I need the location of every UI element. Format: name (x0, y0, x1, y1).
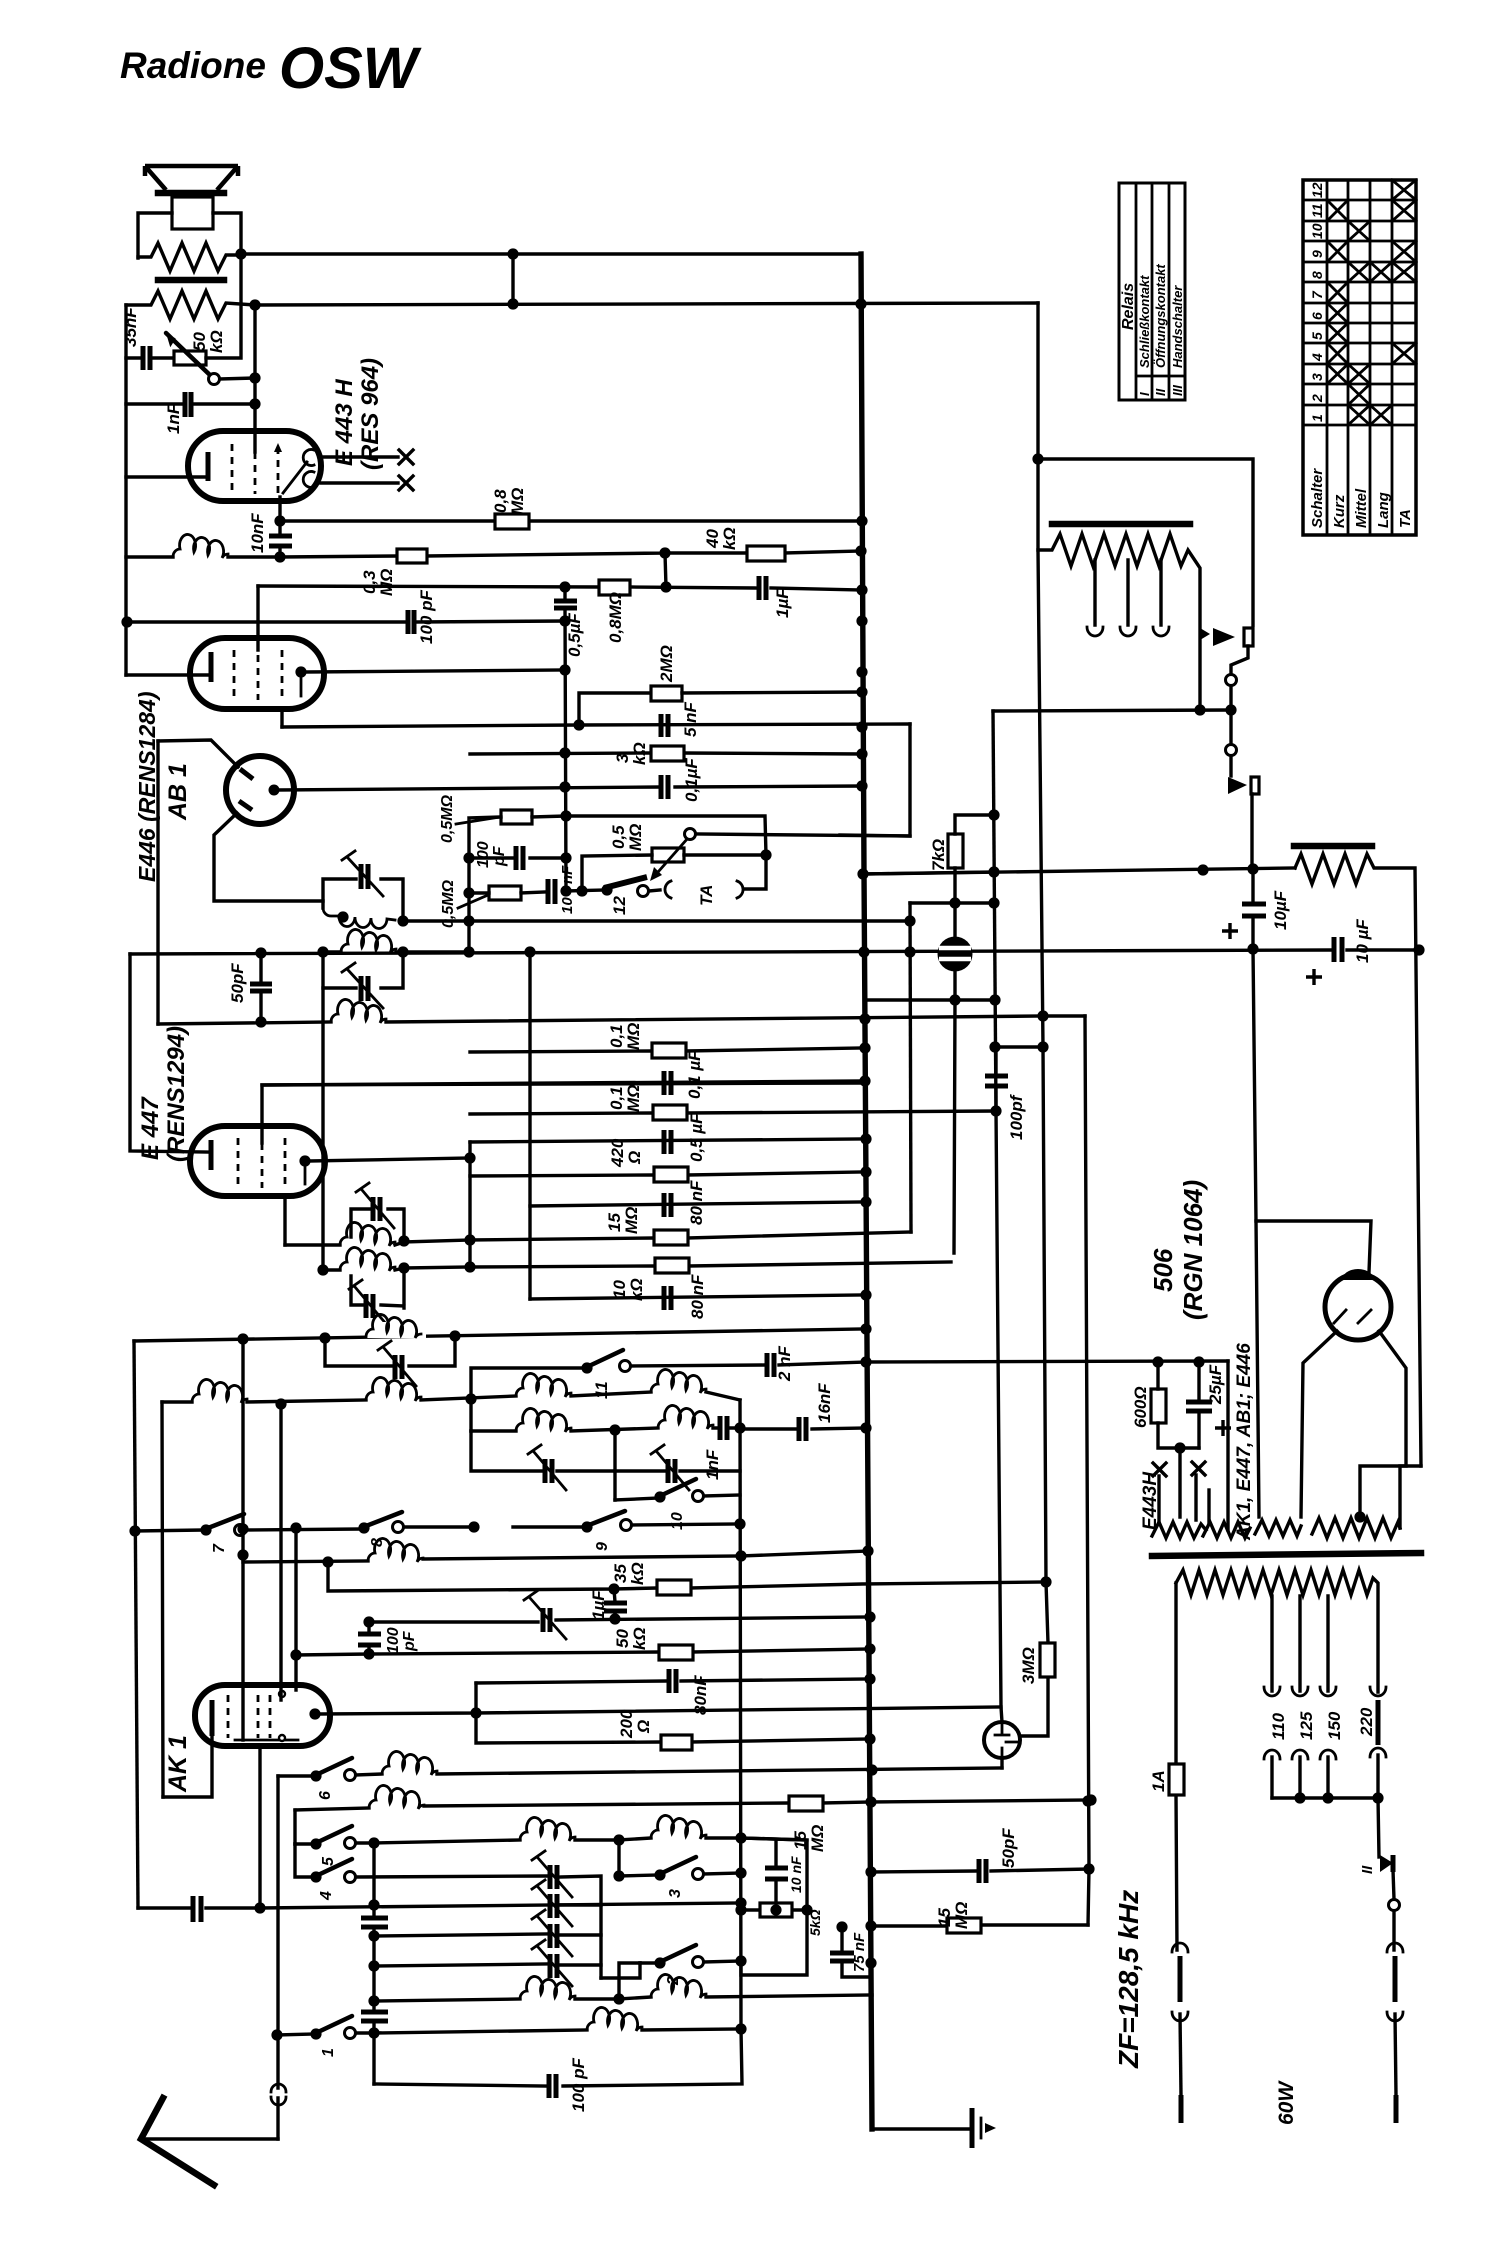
switch 11 row y=1368 (471, 1350, 866, 1431)
junction dot (1083, 1863, 1094, 1874)
wire x=295 to switch4 (295, 1844, 314, 1877)
junction dot (836, 1921, 847, 1932)
svg-text:Schließkontakt: Schließkontakt (1137, 275, 1152, 368)
junction dot (1294, 1792, 1305, 1803)
junction dot (856, 780, 867, 791)
junction dot (856, 666, 867, 677)
junction dot (319, 1332, 330, 1343)
svg-text:80 nF: 80 nF (688, 1274, 707, 1319)
label E447 (RENS1294) (137, 1026, 190, 1162)
svg-text:TA: TA (697, 885, 716, 906)
junction dot (559, 781, 570, 792)
junction dot (904, 946, 915, 957)
relay legend table (1119, 183, 1185, 400)
svg-text:II: II (1359, 1865, 1376, 1874)
junction dot (856, 515, 867, 526)
junction dot (1193, 1356, 1204, 1367)
row y=1683 80nF (476, 1669, 870, 1715)
wire x=1088 vertical (1085, 1016, 1089, 1869)
junction dot (254, 1902, 265, 1913)
ladder row 0,1MOhm y=1051 (470, 1023, 862, 1058)
wire 1047 link (995, 1045, 1043, 1048)
capacitor 100pF shunt (358, 1622, 418, 1654)
wire row y=622 (127, 621, 565, 622)
svg-text:AK1, E447, AB1; E446: AK1, E447, AB1; E446 (1234, 1343, 1255, 1541)
switch matrix table (1303, 180, 1416, 535)
junction dot (1152, 1356, 1163, 1367)
junction dot (856, 721, 867, 732)
junction dot (1413, 944, 1424, 955)
capacitor 75nF (830, 1927, 871, 1977)
junction dot (368, 1960, 379, 1971)
coil on row 1338 (366, 1314, 426, 1338)
wire x=243 grid vertical (241, 1339, 244, 1740)
svg-text:100: 100 (385, 1627, 402, 1654)
junction dot (859, 1013, 870, 1024)
svg-text:kΩ: kΩ (720, 527, 739, 550)
switch 6 row y=1777 (278, 1751, 1002, 1800)
osc trimmer box row1338 (325, 1336, 455, 1386)
svg-text:5: 5 (1309, 332, 1325, 340)
capacitor 0,1uF on row 787 (661, 758, 701, 802)
svg-text:MΩ: MΩ (624, 1085, 643, 1112)
wire left vertical x=126 (124, 305, 127, 675)
junction dot (237, 1333, 248, 1344)
svg-text:MΩ: MΩ (626, 824, 645, 851)
svg-text:7kΩ: 7kΩ (929, 839, 948, 871)
magic eye tube (984, 1722, 1020, 1758)
junction dot (735, 1867, 746, 1878)
X mark (1153, 1463, 1166, 1476)
wire row 872 bus to x994 (863, 872, 994, 874)
svg-text:0,5MΩ: 0,5MΩ (439, 794, 456, 843)
junction dot (129, 1525, 140, 1536)
wire grid lead x=255 (253, 305, 256, 452)
junction dot (468, 1521, 479, 1532)
svg-text:10: 10 (559, 897, 576, 914)
junction dot (735, 1904, 746, 1915)
junction dot (398, 1262, 409, 1273)
junction dot (859, 1075, 870, 1086)
junction dot (856, 615, 867, 626)
svg-text:75 nF: 75 nF (851, 1932, 868, 1972)
svg-text:MΩ: MΩ (952, 1902, 971, 1929)
svg-text:(RES 964): (RES 964) (357, 358, 384, 470)
svg-text:1µF: 1µF (589, 1590, 608, 1620)
junction dot (856, 584, 867, 595)
junction dot (613, 1993, 624, 2004)
junction dot (249, 398, 260, 409)
junction dot (559, 581, 570, 592)
wire E447 grid from row 1085 (262, 1083, 862, 1143)
resistor 2MOhm (651, 645, 862, 701)
svg-text:12: 12 (610, 896, 629, 915)
wire screen row y=726 (282, 724, 910, 727)
junction dot (507, 248, 518, 259)
junction dot (524, 946, 535, 957)
filament winding E443H (1152, 1448, 1206, 1538)
resistor 0,5MOhm second (440, 879, 544, 928)
tube leads to X (321, 457, 398, 483)
junction dot (860, 1356, 871, 1367)
variable cap gang 2 row 1936 (374, 1910, 601, 1956)
junction dot (560, 852, 571, 863)
junction dot (609, 1613, 620, 1624)
wire x=323 link (321, 988, 324, 1270)
wire x=130 down to E447 cathode (130, 954, 207, 1152)
junction dot (1040, 1576, 1051, 1587)
capacitor 2nF (767, 1345, 794, 1382)
junction dot (659, 547, 670, 558)
potentiometer 50kOhm (165, 258, 241, 376)
junction dot (274, 515, 285, 526)
junction dot (463, 915, 474, 926)
capacitor 5nF (661, 701, 700, 737)
junction dot (609, 1424, 620, 1435)
lamp (938, 937, 973, 972)
svg-text:Ω: Ω (625, 1151, 644, 1165)
capacitor 35nF (121, 307, 174, 370)
coil L1 (126, 534, 280, 558)
capacitor series in row 1908 (193, 1896, 201, 1922)
primary taps (1264, 1596, 1288, 1798)
junction dot (317, 946, 328, 957)
svg-text:10µF: 10µF (1271, 890, 1290, 930)
svg-text:0,8MΩ: 0,8MΩ (606, 592, 625, 643)
row 1843 coils right (374, 1815, 807, 1843)
tube E443H (126, 431, 321, 521)
label AK1 E447 AB1 E446 (1228, 1343, 1255, 1541)
junction dot (368, 2027, 379, 2038)
junction dot (559, 747, 570, 758)
title Radione OSW (120, 36, 422, 101)
wire row y=1023 (158, 1022, 331, 1024)
svg-text:Schalter: Schalter (1309, 468, 1326, 528)
ladder row 0,1MOhm 2 y=1113 (470, 1085, 996, 1120)
junction dot (337, 911, 348, 922)
wire link rows 254-305 (511, 254, 514, 305)
wire row y=787 AB1 anode (278, 786, 862, 790)
winding 506 filament (1255, 1520, 1301, 1536)
capacitor 16nF (740, 1383, 866, 1441)
wire x=740 long vertical (740, 1400, 741, 2031)
svg-text:kΩ: kΩ (207, 330, 226, 353)
wire 816 corner x=765 (566, 816, 766, 855)
svg-text:I: I (1137, 392, 1152, 396)
junction dot (865, 1957, 876, 1968)
potentiometer 0,5MOhm (582, 824, 910, 891)
resistor 0,3MOhm (360, 549, 427, 596)
svg-text:10nF: 10nF (248, 513, 267, 553)
junction dot (855, 298, 866, 309)
junction dot (464, 1234, 475, 1245)
junction dot (855, 545, 866, 556)
junction dot (904, 915, 915, 926)
row 2033 coil right (374, 2007, 741, 2033)
svg-text:kΩ: kΩ (630, 742, 649, 765)
svg-text:0,1µF: 0,1µF (682, 758, 701, 802)
svg-text:0,1 µF: 0,1 µF (685, 1050, 704, 1099)
vertical x=994 (993, 711, 996, 1111)
jog x=910 lower (910, 903, 911, 1232)
junction dot (860, 1133, 871, 1144)
svg-text:4: 4 (1309, 353, 1325, 362)
switch 9 (581, 1511, 631, 1551)
variable cap gang 3 row 1966 (374, 1940, 601, 1986)
resistor 3kOhm (613, 742, 684, 765)
svg-text:kΩ: kΩ (628, 1562, 647, 1585)
capacitor 10uF first (1222, 869, 1290, 949)
ladder row 420 Ohm y=1175 (470, 1138, 862, 1182)
wire lamp bottom row (866, 971, 996, 1253)
junction dot (858, 946, 869, 957)
capacitor 0,5uF in vertical x=565 (554, 587, 584, 891)
wire x=374 vertical with caps (361, 1843, 388, 2084)
AK1 top leads (281, 1404, 296, 1700)
svg-text:Kurz: Kurz (1331, 494, 1348, 528)
junction dot (465, 1393, 476, 1404)
svg-text:60W: 60W (1275, 2080, 1298, 2125)
junction dot (1037, 1010, 1048, 1021)
wire row 1801 avc (871, 1800, 1091, 1802)
AK1 bottom lead (258, 1746, 261, 1908)
X mark (399, 476, 413, 490)
row y=1621 variable cap (369, 1591, 870, 1639)
magnet core bar (158, 277, 224, 284)
junction dot (573, 719, 584, 730)
wiper terminal circle (209, 374, 256, 385)
svg-text:E 443 H: E 443 H (331, 379, 358, 466)
IF transformer 3 (285, 1183, 470, 1246)
choke taps with hooks (1087, 560, 1103, 636)
capacitor 100pF row 858 (469, 841, 566, 870)
X mark (399, 450, 413, 464)
junction dot (864, 1733, 875, 1744)
svg-text:10: 10 (1309, 223, 1325, 239)
ladder row 10kOhm y=1266 (470, 1258, 951, 1301)
junction dot (864, 1611, 875, 1622)
resistor 0,8MOhm (491, 488, 529, 529)
svg-text:2MΩ: 2MΩ (657, 645, 676, 683)
row y=1529 avc switches (135, 1524, 740, 1531)
svg-text:220: 220 (1357, 1707, 1376, 1737)
primary winding (1176, 1570, 1378, 1950)
switch 7 (200, 1514, 245, 1553)
svg-text:OSW: OSW (279, 36, 422, 101)
junction dot (368, 1930, 379, 1941)
filament winding AK1 group (1203, 1490, 1250, 1538)
svg-text:Ω: Ω (634, 1720, 653, 1734)
junction dot (1082, 1795, 1093, 1806)
switch 4 (310, 1859, 546, 1901)
junction dot (397, 915, 408, 926)
junction dot (463, 946, 474, 957)
junction dot (317, 1264, 328, 1275)
junction dot (559, 615, 570, 626)
svg-text:100pf: 100pf (1007, 1093, 1026, 1140)
mains lead 2 plugs (1387, 1943, 1403, 2123)
svg-text:6: 6 (317, 1791, 334, 1800)
svg-text:0,5 µF: 0,5 µF (687, 1113, 706, 1162)
capacitor 1uF shunt (589, 1589, 627, 1620)
svg-text:3MΩ: 3MΩ (1019, 1647, 1038, 1684)
resistor 3MOhm vertical (1019, 1643, 1055, 1684)
svg-text:pF: pF (491, 845, 508, 867)
capacitor 1uF series row 587 (759, 576, 792, 618)
fuse 1A (1149, 1764, 1184, 1795)
junction dot (559, 664, 570, 675)
matrix X marks (1327, 180, 1416, 425)
svg-text:100 pF: 100 pF (417, 590, 436, 644)
wire x=162 vertical (162, 1402, 163, 1797)
primary 220 tap (1357, 1687, 1386, 1798)
junction dot (290, 1522, 301, 1533)
wire x=1255 HT riser (1253, 949, 1259, 1517)
svg-text:11: 11 (1309, 203, 1325, 218)
ladder row cap 80nF 2 y=1298 (530, 1274, 862, 1319)
resistor 15MOhm (789, 1796, 827, 1852)
output choke top right (1294, 846, 1421, 1466)
junction dot (990, 1105, 1001, 1116)
IF transformer 1 top box with trimmer (323, 851, 403, 929)
wire row 1362 filament rail (866, 1361, 1228, 1362)
junction dot (368, 1899, 379, 1910)
resistor 7kOhm (929, 815, 994, 937)
transformer core bar (1152, 1553, 1421, 1556)
wire pointer E447cathode-AB1 (158, 740, 238, 767)
wire E447 anode (310, 1158, 470, 1161)
IF transformer 4 (323, 1247, 470, 1325)
wire AB1 grid down (214, 813, 323, 901)
winding HT (1312, 1466, 1421, 1538)
svg-text:Radione: Radione (120, 45, 266, 86)
junction dot (363, 1616, 374, 1627)
svg-text:Mittel: Mittel (1353, 488, 1370, 528)
trimmer 2 row 1471 (615, 1445, 740, 1490)
jog x=910 upper (840, 724, 910, 836)
junction dot (1085, 1794, 1096, 1805)
junction dot (613, 1834, 624, 1845)
junction dot (989, 994, 1000, 1005)
wire x=158 vertical (156, 741, 159, 1024)
svg-text:E 447: E 447 (137, 1096, 164, 1160)
svg-text:150: 150 (1325, 1711, 1344, 1740)
svg-text:E446 (RENS1284): E446 (RENS1284) (134, 692, 160, 883)
capacitor 10nF row 891 (548, 865, 576, 914)
wire x=135 bottom corner row 1908 (138, 1906, 260, 1909)
junction dot (1174, 1442, 1185, 1453)
wire V2 main slant (1020, 303, 1048, 1736)
svg-text:80 nF: 80 nF (687, 1180, 706, 1225)
junction dot (613, 1870, 624, 1881)
capacitor 10nF (248, 513, 292, 557)
ladder row cap 0,5uF y=1142 (470, 1113, 862, 1162)
wire x=530 vertical (528, 952, 531, 1299)
junction dot (801, 1904, 812, 1915)
wire 1016 link (1043, 1014, 1085, 1017)
junction dot (865, 1920, 876, 1931)
svg-text:MΩ: MΩ (624, 1023, 643, 1050)
junction dot (463, 852, 474, 863)
svg-text:100: 100 (475, 841, 492, 868)
svg-text:kΩ: kΩ (630, 1627, 649, 1650)
wire corner x=579 to row 693 (579, 693, 651, 725)
junction dot (608, 1583, 619, 1594)
tube AK1 (163, 1685, 330, 1797)
svg-text:1nF: 1nF (164, 403, 183, 434)
wire row y=921 (403, 919, 910, 922)
junction dot (463, 887, 474, 898)
row y=1654 50k (296, 1627, 870, 1660)
svg-text:0,5MΩ: 0,5MΩ (440, 879, 457, 928)
svg-text:7: 7 (1309, 290, 1325, 299)
junction dot (856, 748, 867, 759)
switch 3 row y=1875 (619, 1840, 741, 1898)
TA jack hooks (665, 855, 766, 906)
junction dot (735, 2023, 746, 2034)
gang bottom jog to switch2 (601, 1963, 640, 1978)
junction dot (1354, 1511, 1365, 1522)
svg-text:II: II (1153, 388, 1168, 396)
junction dot (470, 1707, 481, 1718)
tube AB1 (226, 756, 294, 824)
wire lamp to x994 (910, 901, 994, 904)
wire switch2 link (619, 1963, 640, 1999)
svg-text:MΩ: MΩ (377, 569, 396, 596)
junction dot (989, 1041, 1000, 1052)
junction dot (734, 1422, 745, 1433)
svg-text:2 nF: 2 nF (775, 1345, 794, 1382)
svg-text:9: 9 (594, 1542, 611, 1551)
junction dot (368, 1995, 379, 2006)
svg-text:Handschalter: Handschalter (1170, 285, 1185, 368)
pointer dial 1 (1200, 628, 1253, 646)
junction dot (290, 1649, 301, 1660)
wire row y=556 (280, 551, 861, 557)
osc row y=1338 (134, 1329, 862, 1341)
capacitor 10uF second (1306, 919, 1372, 985)
resistor 40kOhm (703, 527, 785, 561)
svg-text:50pF: 50pF (999, 1828, 1018, 1868)
variable cap gang 1 (532, 1851, 601, 1978)
resistor 0,8MOhm second (599, 580, 630, 643)
junction dot (322, 1556, 333, 1567)
junction dot (988, 809, 999, 820)
svg-text:100 pF: 100 pF (569, 2058, 588, 2112)
wire row 711 (993, 710, 1231, 711)
svg-text:3: 3 (667, 1889, 684, 1898)
junction dot (1225, 704, 1236, 715)
junction dot (576, 885, 587, 896)
junction dot (735, 1955, 746, 1966)
junction dot (449, 1330, 460, 1341)
junction dot (860, 1166, 871, 1177)
speaker frame (138, 213, 241, 258)
junction dot (865, 1796, 876, 1807)
junction dot (363, 1648, 374, 1659)
switch II mains (1359, 1855, 1400, 1950)
svg-text:(RGN 1064): (RGN 1064) (1178, 1180, 1208, 1320)
svg-text:2: 2 (1309, 394, 1325, 403)
svg-text:1A: 1A (1149, 1770, 1168, 1792)
svg-text:25µF: 25µF (1206, 1364, 1225, 1405)
svg-text:50pF: 50pF (228, 963, 247, 1003)
ground (872, 2108, 996, 2148)
resistor 600 Ohm (1131, 1362, 1199, 1448)
row y=1591 35k (328, 1562, 1046, 1595)
row y=1806 osc coil (295, 1785, 871, 1810)
junction dot (856, 686, 867, 697)
